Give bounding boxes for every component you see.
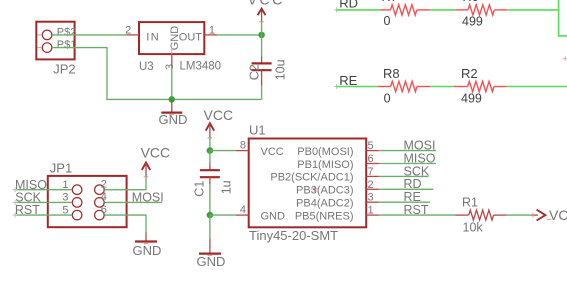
- wire JP1 pin2 to VCC: [104, 176, 146, 189]
- supply symbol VCC (right, rotated): [532, 207, 567, 223]
- svg-text:6: 6: [101, 204, 107, 216]
- wire net MOSI (JP1): [104, 201, 162, 203]
- svg-text:10k: 10k: [463, 221, 484, 235]
- svg-text:RD: RD: [404, 177, 422, 191]
- junction U1 VCC: [207, 147, 214, 154]
- capacitor C2: [252, 35, 272, 100]
- pin 3 inner origin mark: [171, 48, 173, 55]
- svg-text:RD: RD: [339, 0, 358, 11]
- svg-text:VCC: VCC: [261, 146, 284, 158]
- resistor R8 (highlighted): [378, 81, 431, 91]
- wire net RE (highlighted): [337, 86, 378, 88]
- pin 5 stub: [366, 150, 379, 152]
- svg-text:GND: GND: [197, 254, 226, 269]
- svg-text:RST: RST: [404, 203, 429, 217]
- ground symbol GND (JP1): [133, 233, 162, 258]
- resistor R2 (highlighted): [454, 81, 507, 91]
- svg-text:3: 3: [164, 64, 176, 70]
- svg-text:499: 499: [462, 14, 483, 28]
- svg-text:MOSI: MOSI: [132, 190, 164, 204]
- wire net SCK: [379, 175, 429, 177]
- svg-text:GND: GND: [133, 243, 162, 258]
- svg-text:6: 6: [368, 153, 374, 165]
- svg-text:4: 4: [240, 204, 246, 216]
- wire between R8 and R2: [430, 86, 453, 88]
- capacitor C1: [200, 151, 220, 216]
- svg-text:7: 7: [368, 166, 374, 178]
- supply symbol VCC (JP1): [141, 144, 171, 177]
- wire net RE: [379, 201, 430, 203]
- junction GND bus: [169, 96, 176, 103]
- wire net SCK (left): [15, 201, 72, 203]
- wire net MISO: [379, 163, 436, 165]
- ground symbol GND (under U3): [159, 99, 188, 127]
- svg-text:VCC: VCC: [248, 0, 285, 8]
- part origin cross U1: [311, 186, 318, 193]
- svg-text:R7: R7: [382, 0, 398, 4]
- svg-text:PB2(SCK/ADC1): PB2(SCK/ADC1): [270, 172, 353, 184]
- svg-text:VCC: VCC: [141, 144, 171, 160]
- svg-text:PB0(MOSI): PB0(MOSI): [297, 146, 353, 158]
- IC U1 Tiny45 box: [249, 139, 367, 228]
- svg-text:1u: 1u: [220, 180, 234, 194]
- supply symbol VCC (for U1): [204, 107, 234, 151]
- wire VCC to U1 pin8: [210, 150, 236, 152]
- pin 8 stub (VCC): [236, 150, 249, 152]
- svg-text:P$1: P$1: [57, 39, 77, 51]
- svg-text:C1: C1: [192, 181, 206, 197]
- wire U3 pin3 to GND bus: [171, 67, 173, 100]
- svg-text:GND: GND: [261, 210, 286, 222]
- connector JP1: [48, 176, 127, 227]
- svg-text:1: 1: [368, 205, 374, 217]
- wire net MOSI: [379, 150, 436, 152]
- svg-text:R6: R6: [463, 0, 479, 4]
- svg-text:RE: RE: [404, 190, 421, 204]
- svg-text:VCC: VCC: [204, 107, 234, 123]
- wire end cross RD: [334, 7, 339, 12]
- connector JP2: [36, 22, 74, 60]
- svg-text:JP1: JP1: [50, 160, 72, 175]
- svg-text:PB5(NRES): PB5(NRES): [295, 210, 354, 222]
- svg-text:GND: GND: [159, 112, 188, 127]
- svg-text:RST: RST: [15, 203, 40, 217]
- wire net RD: [379, 188, 434, 190]
- svg-text:0: 0: [384, 14, 391, 28]
- svg-text:JP2: JP2: [53, 61, 75, 76]
- svg-text:VCC: VCC: [549, 207, 567, 223]
- pin 4 stub (GND): [236, 214, 249, 216]
- wire net RST: [379, 214, 455, 216]
- supply symbol VCC (top): [248, 0, 285, 35]
- wire JP1 pin6 to GND: [104, 215, 146, 232]
- wire net MISO (left): [15, 189, 72, 191]
- svg-text:8: 8: [240, 140, 246, 152]
- stray pin mark right edge: [563, 56, 567, 61]
- svg-text:LM3480: LM3480: [180, 61, 222, 73]
- wire end crosses (net label stubs right of U1): [13, 187, 18, 192]
- svg-text:2: 2: [368, 179, 374, 191]
- pin 6 stub: [366, 163, 379, 165]
- pin 7 stub: [366, 175, 379, 177]
- wire R1 to VCC arrow: [507, 214, 532, 216]
- svg-text:4: 4: [101, 191, 107, 203]
- svg-text:IN: IN: [146, 32, 160, 44]
- op-amp U3 regulator box: [139, 22, 204, 54]
- svg-text:R2: R2: [461, 66, 478, 81]
- svg-text:OUT: OUT: [179, 32, 203, 44]
- wire P$1 to GND bus: [52, 48, 262, 100]
- pin 2 stub: [366, 188, 379, 190]
- svg-text:2: 2: [101, 178, 107, 190]
- svg-text:Tiny45-20-SMT: Tiny45-20-SMT: [249, 228, 338, 243]
- svg-text:R8: R8: [383, 66, 400, 81]
- svg-text:U1: U1: [249, 123, 266, 138]
- svg-text:5: 5: [368, 140, 374, 152]
- wire vertical at right edge: [559, 0, 567, 36]
- resistor R6 (highlighted): [455, 5, 507, 15]
- svg-text:0: 0: [384, 92, 391, 106]
- wire P$2 to U3 pin2: [52, 34, 126, 36]
- junction U1 GND: [207, 212, 214, 219]
- wire net RD (highlighted): [337, 9, 380, 11]
- svg-text:R1: R1: [462, 196, 478, 210]
- ground symbol GND (under C1): [197, 215, 226, 269]
- wire end cross RE: [334, 84, 339, 89]
- svg-text:PB3(ADC3): PB3(ADC3): [296, 185, 353, 197]
- svg-text:2: 2: [125, 25, 131, 37]
- wire RE to right edge: [507, 86, 567, 88]
- resistor R1: [455, 210, 506, 220]
- junction VCC node: [258, 32, 265, 39]
- wire U3 pin1 to VCC node: [217, 34, 262, 36]
- svg-text:MOSI: MOSI: [404, 139, 436, 153]
- pin 3 stub of U3: [171, 54, 173, 67]
- pin 3 stub: [366, 201, 379, 203]
- svg-text:U3: U3: [139, 61, 154, 73]
- wire net RST (left): [15, 214, 72, 216]
- pin 1 stub: [366, 214, 379, 216]
- svg-text:499: 499: [461, 92, 482, 106]
- wire RD to right edge: [507, 9, 559, 11]
- resistor R7 (highlighted): [379, 5, 430, 15]
- svg-text:MISO: MISO: [404, 151, 436, 165]
- pin 2 stub of U3: [126, 34, 139, 36]
- svg-text:SCK: SCK: [404, 164, 430, 178]
- svg-text:10u: 10u: [274, 59, 288, 80]
- wire between R7 and R6: [430, 9, 455, 11]
- svg-text:1: 1: [209, 24, 215, 36]
- svg-text:PB1(MISO): PB1(MISO): [297, 159, 353, 171]
- wire C1 to U1 pin4: [210, 214, 236, 216]
- svg-text:PB4(ADC2): PB4(ADC2): [296, 198, 353, 210]
- svg-text:C2: C2: [247, 64, 261, 80]
- pin 1 stub of U3: [204, 34, 217, 36]
- svg-text:P$2: P$2: [57, 26, 77, 38]
- svg-text:3: 3: [368, 192, 374, 204]
